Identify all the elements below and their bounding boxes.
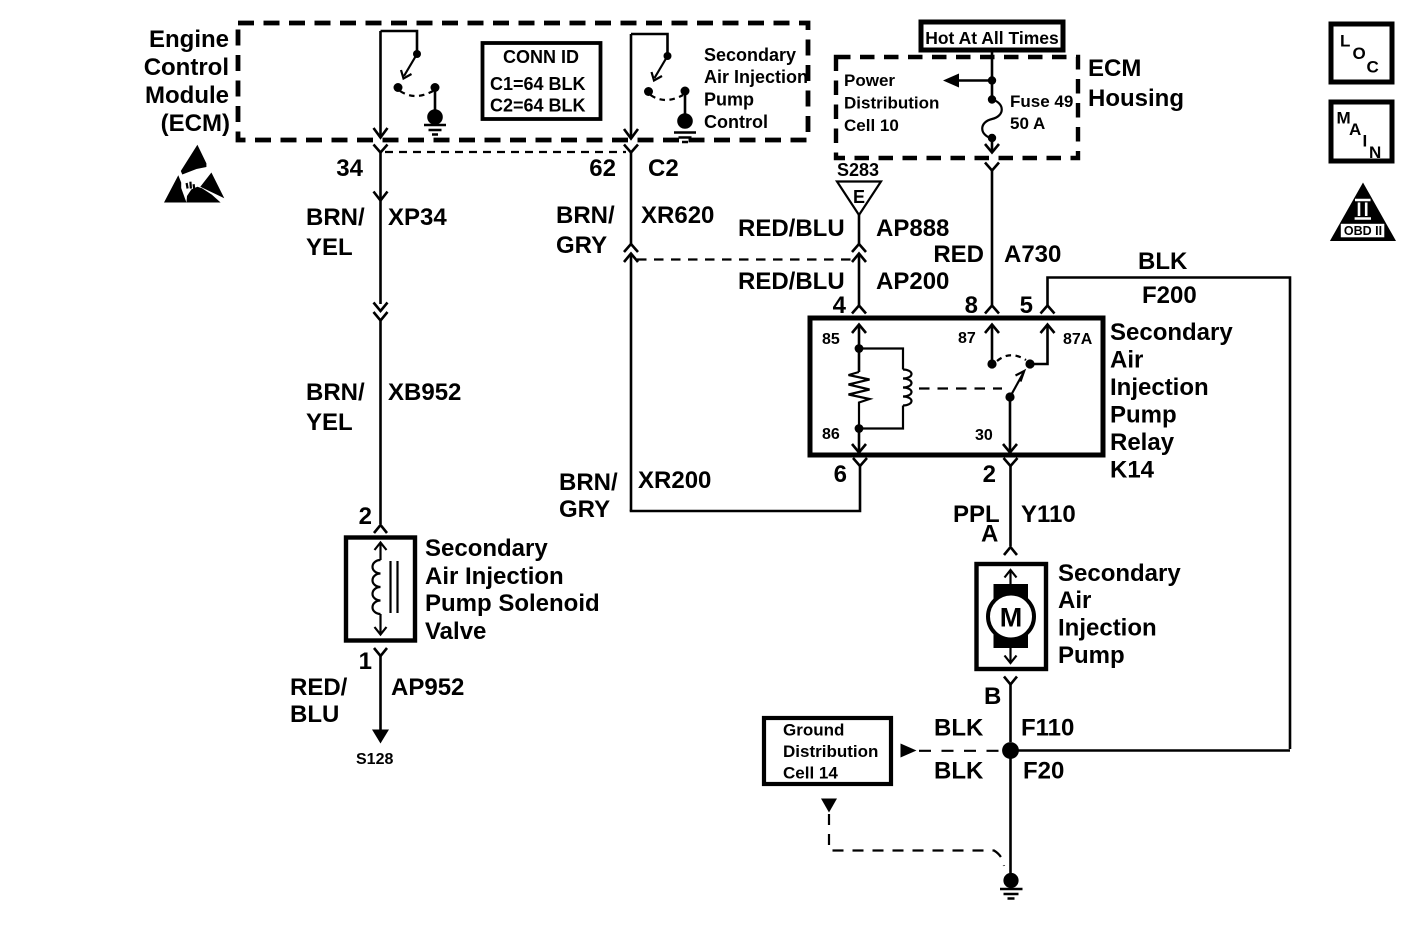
pin 34 connector <box>336 145 387 183</box>
relay pin 8 connector <box>965 292 999 319</box>
wire XR620 BRN/GRY <box>556 153 714 260</box>
ground distribution pointer <box>901 744 1001 758</box>
svg-text:K14: K14 <box>1110 457 1155 484</box>
svg-text:Air Injection: Air Injection <box>704 67 808 87</box>
ECM module label "Engine Control Module (ECM)" <box>144 26 230 137</box>
ECM Housing label <box>1088 55 1184 112</box>
svg-text:RED/BLU: RED/BLU <box>738 268 845 295</box>
inline connector on XR620 wire <box>624 244 638 511</box>
svg-text:BRN/: BRN/ <box>306 379 365 406</box>
svg-text:RED/: RED/ <box>290 674 348 701</box>
svg-text:A: A <box>981 521 998 548</box>
svg-text:50 A: 50 A <box>1010 114 1045 133</box>
svg-text:BRN/: BRN/ <box>306 204 365 231</box>
svg-text:BRN/: BRN/ <box>556 202 615 229</box>
pin 1 connector <box>359 648 387 675</box>
wire F20 BLK <box>934 758 1064 874</box>
svg-text:XP34: XP34 <box>388 204 447 231</box>
svg-text:Ground: Ground <box>783 721 844 740</box>
svg-text:C: C <box>1367 58 1379 77</box>
svg-text:Secondary: Secondary <box>1058 560 1181 587</box>
svg-text:87A: 87A <box>1063 331 1093 348</box>
svg-text:4: 4 <box>833 292 847 319</box>
ESD sensitive symbol <box>164 145 224 203</box>
Power Distribution Cell 10 dashed box <box>836 57 1078 158</box>
svg-text:2: 2 <box>983 461 996 488</box>
ECM dashed enclosure box <box>238 23 808 140</box>
svg-text:AP888: AP888 <box>876 215 949 242</box>
svg-text:BLU: BLU <box>290 701 339 728</box>
relay pin 30 <box>975 397 1017 453</box>
svg-text:M: M <box>1000 603 1023 633</box>
svg-text:85: 85 <box>822 331 840 348</box>
relay pin 5 connector <box>1020 292 1055 319</box>
svg-text:Injection: Injection <box>1110 374 1209 401</box>
svg-text:A: A <box>1349 120 1361 139</box>
Ground Distribution Cell 14 box <box>764 718 891 784</box>
relay switch dashed arc <box>997 355 1026 361</box>
svg-text:BLK: BLK <box>934 758 984 785</box>
svg-text:(ECM): (ECM) <box>161 110 230 137</box>
svg-text:Relay: Relay <box>1110 429 1175 456</box>
svg-text:Air Injection: Air Injection <box>425 563 564 590</box>
wire XB952 BRN/YEL <box>306 321 461 525</box>
svg-text:ECM: ECM <box>1088 55 1141 82</box>
pump terminal B connector <box>984 677 1017 711</box>
relay K14 box <box>810 318 1103 455</box>
wire A730 RED <box>933 171 1061 306</box>
Hot At All Times box <box>921 22 1063 50</box>
pin 2 connector (solenoid valve) <box>359 503 387 533</box>
splice S128 <box>356 730 393 769</box>
ground reference dashed path <box>821 799 1004 867</box>
wire XR200 BRN/GRY <box>559 466 860 523</box>
wire AP888 RED/BLU <box>738 215 949 244</box>
fuse 49 <box>982 92 1073 142</box>
svg-text:BRN/: BRN/ <box>559 469 618 496</box>
svg-text:Control: Control <box>144 54 229 81</box>
label "Secondary Air Injection Pump Control" <box>704 45 808 132</box>
svg-text:86: 86 <box>822 426 840 443</box>
svg-text:YEL: YEL <box>306 234 353 261</box>
ground junction node <box>1002 742 1290 759</box>
svg-text:5: 5 <box>1020 292 1033 319</box>
svg-text:CONN ID: CONN ID <box>503 47 579 67</box>
wire BLK F200 <box>1048 248 1291 749</box>
svg-text:OBD II: OBD II <box>1344 224 1382 238</box>
OBD II symbol <box>1330 183 1396 242</box>
ECM output driver (pin 62) <box>624 34 696 142</box>
svg-text:87: 87 <box>958 330 976 347</box>
svg-text:AP952: AP952 <box>391 674 464 701</box>
svg-text:Cell 14: Cell 14 <box>783 764 838 783</box>
relay pin 6 connector <box>834 458 867 488</box>
svg-text:Module: Module <box>145 82 229 109</box>
connector C1 dashed indicator line <box>385 151 626 153</box>
svg-text:Pump: Pump <box>704 90 754 110</box>
svg-text:Fuse 49: Fuse 49 <box>1010 92 1073 111</box>
svg-text:O: O <box>1353 44 1366 63</box>
relay coil resistor (parallel) <box>849 372 870 428</box>
svg-text:C1=64 BLK: C1=64 BLK <box>490 74 586 94</box>
wire AP952 RED/BLU <box>290 656 464 731</box>
svg-text:GRY: GRY <box>559 496 610 523</box>
svg-text:Air: Air <box>1058 587 1091 614</box>
relay coil winding <box>859 349 912 429</box>
svg-text:F110: F110 <box>1021 715 1074 742</box>
svg-text:B: B <box>984 683 1001 710</box>
svg-text:E: E <box>853 187 865 207</box>
svg-text:XB952: XB952 <box>388 379 461 406</box>
svg-text:XR200: XR200 <box>638 467 711 494</box>
svg-text:Housing: Housing <box>1088 85 1184 112</box>
relay K14 label <box>1110 319 1233 484</box>
wire Y110 PPL <box>953 466 1076 548</box>
svg-text:Pump Solenoid: Pump Solenoid <box>425 590 600 617</box>
svg-text:Distribution: Distribution <box>783 742 878 761</box>
svg-text:Secondary: Secondary <box>1110 319 1233 346</box>
junction node to power distribution <box>943 74 996 88</box>
wire from Hot At All Times <box>991 50 994 96</box>
wire XP34 BRN/YEL <box>306 153 447 305</box>
relay pin 87A <box>1025 325 1092 369</box>
svg-text:34: 34 <box>336 155 363 182</box>
svg-text:30: 30 <box>975 427 993 444</box>
relay pin 4 connector <box>833 292 866 319</box>
svg-text:C2=64 BLK: C2=64 BLK <box>490 96 586 116</box>
svg-text:Engine: Engine <box>149 26 229 53</box>
pin 62 connector <box>589 145 678 183</box>
svg-text:Pump: Pump <box>1058 642 1125 669</box>
svg-text:F200: F200 <box>1142 282 1197 309</box>
svg-text:Secondary: Secondary <box>704 45 796 65</box>
relay pin 86 <box>822 424 866 452</box>
svg-text:Air: Air <box>1110 347 1143 374</box>
svg-text:N: N <box>1369 143 1381 162</box>
svg-text:6: 6 <box>834 461 847 488</box>
svg-text:2: 2 <box>359 503 372 530</box>
svg-text:Y110: Y110 <box>1021 501 1076 528</box>
svg-text:Hot At All Times: Hot At All Times <box>925 28 1059 48</box>
svg-text:Secondary: Secondary <box>425 535 548 562</box>
ground G symbol <box>1000 873 1023 899</box>
svg-text:C2: C2 <box>648 155 679 182</box>
splice S283 symbol <box>837 160 881 215</box>
svg-text:BLK: BLK <box>934 715 984 742</box>
svg-text:XR620: XR620 <box>641 202 714 229</box>
svg-text:S283: S283 <box>837 160 879 180</box>
relay pin 2 connector <box>983 458 1018 488</box>
svg-text:Control: Control <box>704 112 768 132</box>
relay actuation dashed link <box>919 387 1002 389</box>
svg-text:Valve: Valve <box>425 618 486 645</box>
svg-text:Distribution: Distribution <box>844 94 939 113</box>
relay switch arm <box>1005 371 1024 402</box>
svg-text:Pump: Pump <box>1110 402 1177 429</box>
svg-text:YEL: YEL <box>306 409 353 436</box>
svg-text:A730: A730 <box>1004 241 1061 268</box>
svg-text:Injection: Injection <box>1058 615 1157 642</box>
svg-text:RED: RED <box>933 241 984 268</box>
LOC page symbol <box>1331 24 1392 82</box>
solenoid valve S/AIP box <box>346 538 415 641</box>
MAIN page symbol <box>1331 102 1392 162</box>
svg-text:BLK: BLK <box>1138 248 1188 275</box>
relay pin 87 <box>958 325 999 369</box>
connector dashed indicator line <box>637 258 853 260</box>
svg-text:S128: S128 <box>356 751 393 768</box>
pump terminal A connector <box>1004 547 1017 555</box>
wire F110 BLK <box>934 685 1074 743</box>
svg-text:RED/BLU: RED/BLU <box>738 215 845 242</box>
inline connector on AP888/AP200 wire <box>852 244 866 262</box>
svg-text:AP200: AP200 <box>876 268 949 295</box>
svg-text:L: L <box>1340 32 1350 51</box>
fuse output arrow and connector <box>985 138 999 171</box>
svg-text:I: I <box>1363 132 1368 151</box>
relay pin 85 <box>822 325 866 373</box>
solenoid valve label <box>425 535 600 645</box>
secondary air injection pump box <box>977 564 1047 669</box>
pump label <box>1058 560 1181 669</box>
svg-text:GRY: GRY <box>556 232 607 259</box>
inline connector on XP34/XB952 wire <box>374 303 388 321</box>
svg-text:Power: Power <box>844 71 895 90</box>
wire AP200 RED/BLU <box>738 254 949 306</box>
ECM output driver (pin 34) <box>374 31 447 138</box>
svg-text:1: 1 <box>359 648 372 675</box>
CONN ID table box <box>483 43 601 119</box>
svg-text:62: 62 <box>589 155 616 182</box>
svg-text:Cell 10: Cell 10 <box>844 116 899 135</box>
svg-text:F20: F20 <box>1023 758 1064 785</box>
svg-text:8: 8 <box>965 292 978 319</box>
